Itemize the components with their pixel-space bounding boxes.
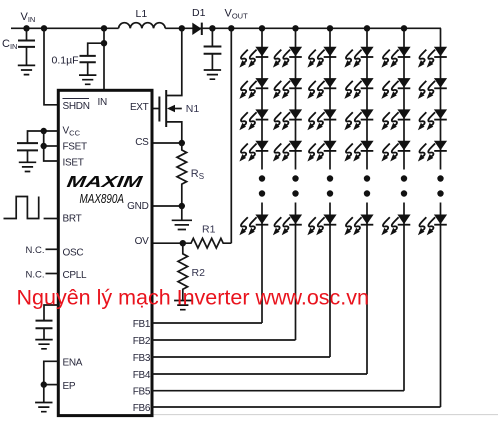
svg-text:CS: CS: [135, 137, 149, 148]
ellipsis dots column 4: [364, 175, 370, 196]
wire: OV pin to divider: [154, 242, 183, 244]
LED D3-2: [307, 78, 336, 99]
LED D6-2: [418, 78, 447, 99]
ellipsis dots column 1: [259, 175, 265, 196]
svg-text:SHDN: SHDN: [63, 101, 90, 112]
inductor L1: [119, 23, 166, 29]
resistor R2: [178, 243, 188, 300]
node: column 3 tap: [327, 25, 333, 31]
svg-text:OV: OV: [135, 236, 149, 247]
LED D5-2: [381, 78, 410, 99]
svg-text:ISET: ISET: [63, 158, 84, 169]
diode D1: [192, 23, 202, 35]
node: 0.1uF tap: [101, 40, 107, 46]
LED D3-5: [307, 215, 336, 236]
wire: CPLL N.C. stub: [46, 273, 59, 275]
svg-text:RS: RS: [191, 168, 204, 181]
resistor R1: [183, 238, 232, 248]
capacitor COUT: [204, 28, 222, 70]
node: GND junction: [179, 203, 185, 209]
wire: BRT pin: [44, 218, 58, 220]
node: column 1 tap: [259, 25, 265, 31]
node: CS sense: [179, 140, 185, 146]
wire: OSC N.C. stub: [46, 248, 59, 250]
capacitor 0.1uF: [80, 43, 105, 75]
node: IN tap: [101, 25, 107, 31]
LED D4-4: [344, 141, 373, 162]
LED string column 5: [403, 28, 405, 390]
LED D4-2: [344, 78, 373, 99]
LED D4-5: [344, 215, 373, 236]
LED string column 2: [295, 28, 297, 340]
ground (COUT): [204, 70, 221, 79]
node: VOUT junction: [209, 25, 215, 31]
node: OV divider tap: [228, 25, 234, 31]
wire: IN drop: [103, 28, 105, 90]
wire: FB4 return: [152, 373, 367, 375]
LED D2-5: [273, 215, 302, 236]
svg-text:VOUT: VOUT: [225, 8, 249, 21]
ground (REF cap): [35, 340, 52, 349]
node: VCC junction: [41, 128, 47, 134]
LED D2-1: [273, 47, 302, 68]
LED D5-5: [381, 215, 410, 236]
svg-text:FB1: FB1: [133, 319, 151, 330]
LED D6-4: [418, 141, 447, 162]
LED string column 6: [440, 28, 442, 407]
svg-text:R2: R2: [192, 267, 206, 279]
svg-text:N.C.: N.C.: [26, 245, 45, 256]
LED D5-4: [381, 141, 410, 162]
svg-text:Nguyên lý mạch Inverter www.os: Nguyên lý mạch Inverter www.osc.vn: [17, 286, 370, 310]
LED D3-1: [307, 47, 336, 68]
node: column 2 tap: [292, 25, 298, 31]
LED D1-2: [239, 78, 268, 99]
LED string column 3: [329, 28, 331, 357]
svg-text:R1: R1: [202, 224, 216, 236]
ground (R2): [174, 301, 191, 310]
ground (CIN): [18, 65, 35, 74]
LED string column 1: [261, 28, 263, 323]
svg-text:MAXIM: MAXIM: [66, 173, 144, 191]
svg-text:FB5: FB5: [133, 387, 151, 398]
svg-text:FB3: FB3: [133, 353, 151, 364]
wire: FB5 return: [152, 390, 404, 392]
wire: EP stub: [44, 384, 58, 386]
BRT PWM waveform: [4, 197, 39, 219]
node: CIN tap: [23, 25, 29, 31]
svg-text:FB6: FB6: [133, 403, 151, 414]
wire: FSET stub: [44, 145, 58, 147]
svg-text:BRT: BRT: [63, 214, 82, 225]
pin SHDN: [63, 99, 90, 113]
svg-text:EXT: EXT: [130, 102, 149, 113]
node: N1 drain tap: [179, 25, 185, 31]
node: FSET junction: [41, 143, 47, 149]
wire: FB6 return: [152, 406, 441, 408]
resistor Rs: [177, 143, 187, 206]
wire: SHDN drop: [44, 28, 58, 105]
LED D6-3: [418, 109, 447, 130]
ellipsis dots column 6: [437, 175, 443, 196]
svg-text:ENA: ENA: [63, 358, 83, 369]
svg-text:EP: EP: [63, 381, 76, 392]
LED D4-3: [344, 109, 373, 130]
svg-text:D1: D1: [192, 7, 206, 19]
MAXIM logo: [66, 173, 144, 191]
svg-text:N1: N1: [186, 103, 200, 115]
LED string column 4: [366, 28, 368, 374]
svg-text:GND: GND: [127, 201, 148, 212]
svg-text:OSC: OSC: [63, 248, 84, 259]
wire: GND pin to sense bottom: [154, 205, 182, 207]
svg-text:CIN: CIN: [2, 38, 17, 51]
LED D6-5: [418, 215, 447, 236]
node: column 5 tap: [401, 25, 407, 31]
node: ENA/EP junction: [41, 381, 47, 387]
LED D5-1: [381, 47, 410, 68]
svg-text:0.1µF: 0.1µF: [52, 55, 79, 67]
ground (VCC cap): [19, 162, 36, 171]
svg-text:L1: L1: [136, 8, 148, 20]
LED D1-4: [239, 141, 268, 162]
capacitor CIN: [18, 28, 35, 65]
LED D1-1: [239, 47, 268, 68]
wire: VCC-FSET-ISET tie: [44, 131, 58, 161]
transistor N1: [154, 28, 182, 143]
node: OV divider mid: [180, 240, 186, 246]
ellipsis dots column 3: [327, 175, 333, 196]
svg-text:FSET: FSET: [63, 142, 88, 153]
node: SHDN tap: [41, 25, 47, 31]
capacitor REF bypass: [36, 305, 59, 340]
ground (EP): [35, 385, 52, 412]
wire: CS to sense node: [154, 142, 182, 144]
ellipsis dots column 5: [401, 175, 407, 196]
svg-text:MAX890A: MAX890A: [80, 192, 125, 206]
svg-text:FB2: FB2: [133, 336, 151, 347]
svg-text:IN: IN: [98, 97, 107, 108]
LED D1-3: [239, 109, 268, 130]
ellipsis dots column 2: [292, 175, 298, 196]
svg-text:N.C.: N.C.: [26, 270, 45, 281]
wire: top rail right segment: [165, 27, 441, 29]
wire: FB3 return: [152, 356, 330, 358]
wire: FB1 return: [152, 322, 262, 324]
ground (0.1uF): [79, 75, 96, 84]
scan artifact line: [154, 414, 498, 416]
op IC outline MAX890A: [58, 90, 152, 415]
LED D2-3: [273, 109, 302, 130]
capacitor VCC bypass: [17, 131, 58, 162]
ground (power GND): [172, 206, 192, 230]
LED D5-3: [381, 109, 410, 130]
svg-text:FB4: FB4: [133, 370, 151, 381]
svg-text:VIN: VIN: [21, 11, 36, 24]
LED D3-3: [307, 109, 336, 130]
wire: FB2 return: [152, 339, 296, 341]
LED D4-1: [344, 47, 373, 68]
LED D3-4: [307, 141, 336, 162]
wire: VIN top rail left segment: [11, 27, 119, 29]
wire: ENA to EP tie: [44, 361, 58, 384]
LED D6-1: [418, 47, 447, 68]
LED D1-5: [239, 215, 268, 236]
wire: OV divider drop from VOUT rail: [230, 28, 232, 243]
LED D2-4: [273, 141, 302, 162]
LED D2-2: [273, 78, 302, 99]
svg-text:CPLL: CPLL: [63, 270, 88, 281]
node: column 4 tap: [364, 25, 370, 31]
